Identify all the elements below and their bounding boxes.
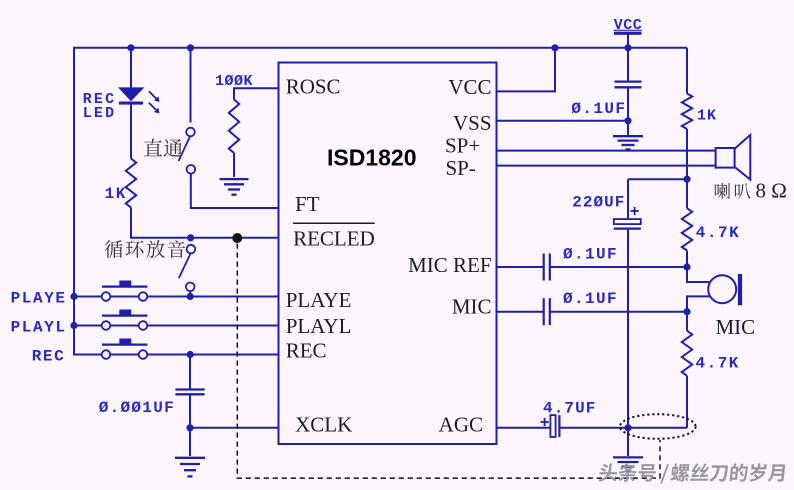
svg-text:MIC REF: MIC REF	[408, 253, 491, 277]
svg-text:Ø.1UF: Ø.1UF	[563, 290, 618, 308]
svg-text:4.7UF: 4.7UF	[543, 400, 597, 418]
svg-text:REC: REC	[32, 348, 66, 366]
svg-text:RECLED: RECLED	[293, 227, 375, 251]
svg-text:PLAYL: PLAYL	[286, 314, 352, 338]
svg-text:1K: 1K	[105, 185, 127, 203]
svg-text:ROSC: ROSC	[286, 75, 341, 99]
svg-text:SP+: SP+	[445, 134, 480, 158]
svg-text:Ø.1UF: Ø.1UF	[563, 246, 618, 264]
svg-text:LED: LED	[83, 105, 117, 122]
svg-text:4.7K: 4.7K	[696, 224, 740, 242]
svg-text:REC: REC	[286, 339, 327, 363]
svg-text:PLAYE: PLAYE	[11, 290, 67, 308]
svg-text:FT: FT	[295, 192, 320, 216]
svg-text:VSS: VSS	[453, 111, 492, 135]
svg-text:Ø.ØØ1UF: Ø.ØØ1UF	[99, 399, 175, 417]
svg-text:1K: 1K	[697, 108, 717, 125]
svg-text:MIC: MIC	[716, 315, 756, 339]
svg-text:AGC: AGC	[439, 413, 483, 437]
svg-text:4.7K: 4.7K	[696, 355, 740, 373]
svg-text:1ØØK: 1ØØK	[215, 73, 253, 90]
svg-text:SP-: SP-	[446, 156, 476, 180]
svg-text:MIC: MIC	[452, 295, 492, 319]
svg-text:ISD1820: ISD1820	[327, 145, 417, 171]
svg-text:PLAYE: PLAYE	[286, 288, 352, 312]
svg-text:8 Ω: 8 Ω	[756, 179, 787, 203]
svg-text:PLAYL: PLAYL	[11, 319, 67, 337]
svg-text:22ØUF: 22ØUF	[572, 194, 625, 212]
svg-text:Ø.1UF: Ø.1UF	[571, 100, 626, 118]
svg-text:VCC: VCC	[448, 75, 491, 99]
svg-text:XCLK: XCLK	[295, 413, 352, 437]
svg-text:VCC: VCC	[614, 17, 643, 34]
